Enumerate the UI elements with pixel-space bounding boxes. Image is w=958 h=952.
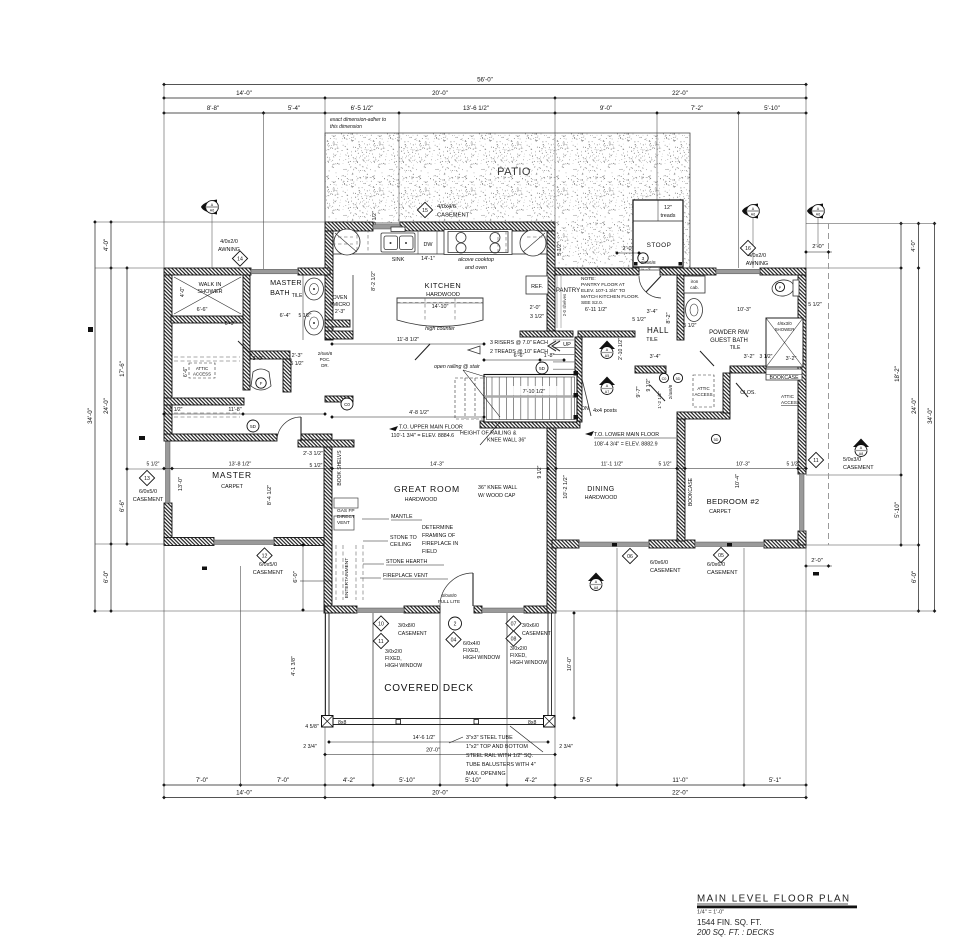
svg-text:6'-6": 6'-6" [197, 307, 208, 313]
svg-text:6'-0": 6'-0" [911, 571, 918, 583]
cooktop 4 burners [444, 230, 512, 255]
wall pantry south seg2 [578, 331, 635, 337]
svg-text:1/4" = 1'-0": 1/4" = 1'-0" [697, 910, 724, 916]
svg-text:MASTER: MASTER [212, 470, 252, 480]
svg-text:2'-3": 2'-3" [335, 309, 345, 315]
svg-text:22'-0": 22'-0" [672, 789, 688, 796]
ext line x164 [163, 85, 165, 269]
svg-text:DW: DW [424, 242, 434, 248]
svg-text:open railing @ stair: open railing @ stair [434, 364, 480, 370]
svg-text:CASEMENT: CASEMENT [133, 497, 164, 503]
wall master south west segment [164, 538, 214, 546]
closet door diagonal [736, 383, 748, 397]
svg-text:FIREPLACE IN: FIREPLACE IN [422, 541, 458, 547]
svg-text:20'-0": 20'-0" [426, 748, 440, 754]
wall great room south seg3 [474, 606, 482, 613]
svg-text:4'-0": 4'-0" [180, 287, 186, 297]
svg-text:GREAT ROOM: GREAT ROOM [394, 484, 460, 494]
svg-text:2/4x6/8: 2/4x6/8 [668, 384, 673, 399]
wall east upper [798, 275, 806, 474]
svg-text:4/0x4/6: 4/0x4/6 [437, 204, 456, 210]
wall kitchen east / pantry west [547, 231, 555, 336]
svg-text:and oven: and oven [465, 265, 487, 271]
dim line 11-8.5 kitchen [332, 343, 484, 345]
svg-text:2 3/4": 2 3/4" [559, 744, 573, 750]
svg-text:BATH: BATH [270, 288, 290, 297]
svg-text:#MICRO: #MICRO [330, 302, 350, 308]
svg-text:5'-10": 5'-10" [399, 777, 415, 784]
dim line 4-8 hall [332, 416, 484, 418]
deck divider line 3 [506, 613, 508, 719]
svg-text:17'-6": 17'-6" [119, 361, 126, 377]
svg-text:ATTIC: ATTIC [781, 394, 795, 399]
svg-text:3'-2": 3'-2" [786, 356, 797, 362]
svg-text:3/0x8/0: 3/0x8/0 [398, 623, 415, 629]
svg-text:CARPET: CARPET [221, 484, 244, 490]
svg-text:FIXED,: FIXED, [510, 653, 527, 659]
wall great room west [324, 441, 332, 613]
svg-text:4'-8 1/2": 4'-8 1/2" [409, 410, 429, 416]
svg-text:OVEN: OVEN [333, 295, 348, 301]
svg-text:4/6x3/0: 4/6x3/0 [777, 321, 792, 326]
window tag diamond 12 [257, 548, 272, 563]
svg-text:TUBE BALUSTERS WITH 4": TUBE BALUSTERS WITH 4" [466, 762, 536, 768]
svg-text:FIREPLACE VENT: FIREPLACE VENT [383, 573, 429, 579]
deck side rails [326, 613, 552, 717]
svg-text:14'-1": 14'-1" [421, 256, 435, 262]
svg-text:5'-5": 5'-5" [580, 777, 592, 784]
svg-text:8x8: 8x8 [528, 720, 536, 726]
svg-text:treads: treads [661, 213, 676, 219]
title underline thin [697, 903, 848, 905]
svg-text:6/0x5/0: 6/0x5/0 [259, 562, 277, 568]
window tag diamond 04 [446, 632, 461, 647]
svg-text:HIGH WINDOW: HIGH WINDOW [463, 655, 500, 661]
note arrow [468, 346, 480, 354]
svg-text:A6: A6 [816, 213, 820, 217]
toilet tag circle F [256, 378, 266, 388]
wall shower/bath divider [243, 275, 250, 390]
svg-text:SEE S2.0.: SEE S2.0. [581, 300, 603, 306]
svg-text:HIGH WINDOW: HIGH WINDOW [385, 663, 422, 669]
iron cabinet box [684, 276, 705, 293]
svg-text:34'-0": 34'-0" [87, 408, 94, 424]
svg-text:2'-3 1/2": 2'-3 1/2" [303, 451, 323, 457]
wall great room south seg4 [524, 606, 552, 613]
svg-text:SHOWER: SHOWER [197, 289, 222, 295]
deck divider line 2 [439, 613, 441, 719]
wall master north seg2 [301, 434, 332, 441]
deck bottom rail [325, 718, 552, 720]
kitchen sink double bowl [381, 227, 415, 252]
svg-text:10'-3": 10'-3" [737, 307, 751, 313]
section marker A6 top right inner [742, 204, 759, 219]
svg-text:CARPET: CARPET [709, 509, 732, 515]
vanity edge line [302, 275, 304, 340]
svg-text:9 1/2": 9 1/2" [646, 378, 652, 391]
svg-text:exact dimension-adher to: exact dimension-adher to [330, 117, 386, 123]
svg-text:7'-2": 7'-2" [691, 105, 703, 112]
svg-text:CASEMENT: CASEMENT [522, 631, 552, 637]
window tag diamond 11 deck [373, 633, 388, 648]
svg-text:A8: A8 [859, 452, 863, 456]
window 07/08 gap great room south [482, 608, 524, 613]
svg-text:ENTERTAINMENT: ENTERTAINMENT [344, 558, 350, 598]
ext line y610 right [552, 610, 935, 612]
svg-text:6'-4": 6'-4" [280, 313, 291, 319]
dim line deck height [573, 613, 575, 718]
svg-text:3'-4": 3'-4" [650, 354, 661, 360]
ext line x325 bottom [324, 610, 326, 798]
svg-text:5/0x3/0: 5/0x3/0 [843, 457, 861, 463]
tag circle C0 master hall [341, 398, 353, 410]
svg-text:11: 11 [813, 458, 818, 464]
powder toilet [771, 279, 795, 298]
svg-text:05: 05 [718, 553, 724, 559]
ext line y475 right [806, 474, 901, 476]
knee wall leader [480, 422, 500, 445]
svg-text:3 RISERS @ 7.0" EACH: 3 RISERS @ 7.0" EACH [490, 340, 548, 346]
wall kitchen north east segment [400, 222, 555, 231]
svg-text:10'-3": 10'-3" [736, 462, 750, 468]
tag circle C0 hall [659, 373, 668, 382]
svg-text:MAIN LEVEL FLOOR PLAN: MAIN LEVEL FLOOR PLAN [697, 894, 851, 905]
svg-text:6/0x5/0: 6/0x5/0 [139, 489, 157, 495]
svg-text:7'-0": 7'-0" [196, 777, 208, 784]
steel tube leader [449, 737, 463, 743]
stair arrow chevron upper [548, 341, 560, 351]
entertainment dashed lines [336, 545, 363, 600]
master door swing [277, 417, 301, 441]
patio stippled paving area [325, 133, 690, 270]
kitchen counter inner edge [333, 253, 547, 255]
svg-text:6/0x6/0: 6/0x6/0 [650, 560, 668, 566]
dim 24ft chain left [110, 222, 112, 611]
wall bookshelves master [298, 440, 354, 447]
svg-text:108'-4 3/4" = ELEV. 8882.9: 108'-4 3/4" = ELEV. 8882.9 [594, 442, 658, 448]
svg-text:24'-0": 24'-0" [911, 398, 918, 414]
svg-text:DN: DN [581, 406, 589, 412]
dim top row3 [164, 112, 806, 114]
svg-text:200 SQ. FT. : DECKS: 200 SQ. FT. : DECKS [696, 928, 775, 937]
svg-text:6'-0": 6'-0" [225, 321, 236, 327]
svg-text:F: F [260, 381, 263, 386]
svg-text:CASEMENT: CASEMENT [253, 570, 284, 576]
svg-text:20'-0": 20'-0" [432, 90, 448, 97]
svg-text:13: 13 [144, 476, 150, 482]
rail mid posts [396, 720, 401, 725]
svg-text:5D: 5D [539, 366, 546, 371]
ext line x164 bottom [163, 545, 165, 798]
svg-text:MANTLE: MANTLE [391, 514, 413, 520]
attic access dashed box master [189, 363, 215, 378]
powder door diagonal [700, 351, 714, 366]
svg-text:STONE HEARTH: STONE HEARTH [386, 559, 427, 565]
svg-text:AWNING: AWNING [746, 261, 768, 267]
svg-text:18'-2": 18'-2" [894, 366, 901, 382]
section cut mark left [88, 327, 93, 332]
fireplace boxes [334, 498, 358, 530]
dim top row2 [164, 97, 806, 99]
svg-text:8'-2 1/2": 8'-2 1/2" [371, 271, 377, 291]
section cut mark left 2 [139, 436, 145, 440]
svg-text:5'-10": 5'-10" [465, 777, 481, 784]
window tag diamond 13 [139, 470, 154, 485]
svg-text:REF.: REF. [531, 284, 543, 290]
svg-text:4'-0": 4'-0" [103, 239, 110, 251]
svg-text:6'-6": 6'-6" [514, 353, 525, 359]
svg-text:CEILING: CEILING [390, 542, 411, 548]
svg-text:HARDWOOD: HARDWOOD [405, 497, 438, 503]
svg-text:ELEV. 107-1 3/4" TO: ELEV. 107-1 3/4" TO [581, 288, 626, 294]
deck divider line 1 [372, 613, 374, 719]
svg-text:2/6x6/8: 2/6x6/8 [318, 351, 333, 356]
svg-text:12: 12 [262, 554, 268, 560]
svg-text:HARDWOOD: HARDWOOD [426, 292, 460, 298]
window 06 gap dining south [579, 542, 649, 547]
svg-text:3'-0": 3'-0" [253, 356, 264, 362]
svg-text:ACCESS: ACCESS [781, 400, 800, 405]
wall great room east / dining west [547, 421, 556, 613]
tag circle 5D hall [673, 373, 682, 382]
ext line x555 bottom [554, 610, 556, 798]
wall great room south seg2 [404, 606, 440, 613]
window 13 gap west wall [166, 435, 171, 503]
entry door swing [639, 276, 661, 298]
svg-text:1"x2" TOP AND BOTTOM: 1"x2" TOP AND BOTTOM [466, 744, 528, 750]
svg-text:56'-0": 56'-0" [477, 76, 493, 83]
window tag diamond 10 [373, 616, 388, 631]
svg-text:2-0 shelves: 2-0 shelves [562, 293, 567, 316]
dim line stairs top [484, 359, 564, 361]
corner lazy susan left [334, 229, 360, 255]
svg-text:2'-0": 2'-0" [623, 246, 634, 252]
svg-text:5 1/2": 5 1/2" [291, 361, 304, 367]
ext line x738 [738, 113, 740, 268]
elevation arrow upper [389, 426, 398, 431]
svg-text:4/0x2/0: 4/0x2/0 [748, 253, 766, 259]
svg-text:CASEMENT: CASEMENT [398, 631, 428, 637]
wall pocket closet south [325, 396, 353, 402]
TO upper underline [399, 430, 462, 432]
wall great room south seg1 [325, 606, 357, 613]
svg-text:11'-0": 11'-0" [672, 777, 687, 784]
svg-text:5 1/2": 5 1/2" [299, 313, 312, 319]
dim 6ft inner line [302, 545, 304, 611]
svg-text:WALK IN: WALK IN [199, 282, 222, 288]
svg-text:A6: A6 [751, 213, 755, 217]
svg-text:22'-0": 22'-0" [672, 90, 688, 97]
svg-text:HARDWOOD: HARDWOOD [585, 495, 618, 501]
wall oven niche south [325, 331, 353, 339]
fireplace vent leader [360, 577, 381, 579]
svg-text:20'-0": 20'-0" [432, 789, 448, 796]
dim line master hall [164, 413, 325, 415]
svg-text:3 1/2": 3 1/2" [530, 314, 544, 320]
wall kitchen north west segment [325, 222, 373, 231]
window tag diamond 14 [232, 251, 247, 266]
svg-text:06: 06 [627, 554, 633, 560]
svg-text:10: 10 [378, 622, 384, 628]
dim line deck 14-6 [329, 741, 548, 743]
ext line x555 [554, 98, 556, 268]
svg-text:3'-4": 3'-4" [647, 309, 658, 315]
oven niche east edge [352, 275, 354, 331]
svg-text:NOTE:: NOTE: [581, 276, 596, 282]
svg-text:DR.: DR. [321, 363, 329, 368]
svg-text:BEDROOM #2: BEDROOM #2 [707, 497, 760, 506]
elevation arrow lower [585, 431, 594, 436]
svg-text:2'-3": 2'-3" [292, 353, 303, 359]
svg-text:36" KNEE WALL: 36" KNEE WALL [478, 485, 517, 491]
svg-text:C0: C0 [662, 377, 667, 381]
tag circle 5D stair [536, 362, 548, 374]
svg-text:C0: C0 [344, 402, 350, 407]
wall stair south knee wall [480, 421, 580, 428]
svg-text:2'-0": 2'-0" [530, 305, 541, 311]
svg-text:1'-8": 1'-8" [544, 353, 555, 359]
ext line x263 [263, 113, 265, 269]
svg-text:TILE: TILE [646, 337, 658, 343]
wall west lower [164, 503, 172, 545]
svg-text:16: 16 [745, 246, 751, 252]
svg-text:11'-1 1/2": 11'-1 1/2" [601, 462, 623, 468]
svg-text:cab.: cab. [690, 285, 699, 290]
wall bedroom2 south seg3 [764, 540, 806, 548]
svg-text:7'-10 1/2": 7'-10 1/2" [523, 389, 546, 395]
svg-text:13'-0": 13'-0" [178, 477, 184, 491]
ext line x440 bottom [439, 613, 441, 785]
wall master suite north east segment [298, 268, 330, 275]
stone hearth underline [386, 564, 444, 566]
ext line y469 left [127, 468, 164, 470]
wall dining south seg1 [552, 540, 579, 548]
svg-text:3/0x2/0: 3/0x2/0 [510, 646, 527, 652]
window 06 center mark [612, 543, 617, 547]
ext line y544 left [95, 543, 164, 545]
master sink 2 [305, 311, 324, 335]
dim line deck 20-0 [325, 754, 555, 756]
window 05 gap bedroom2 south [695, 542, 764, 547]
section marker A6 top right outer [807, 204, 824, 219]
svg-text:13'-8 1/2": 13'-8 1/2" [229, 462, 252, 468]
railing leader1 [463, 370, 486, 377]
walk-in shower X [174, 277, 241, 314]
master toilet [251, 369, 271, 390]
svg-text:6'-5 1/2": 6'-5 1/2" [351, 105, 374, 112]
dim line great room [332, 468, 548, 470]
ext line x507 bottom [506, 613, 508, 785]
svg-text:04: 04 [451, 638, 457, 644]
svg-text:5'-4": 5'-4" [288, 105, 300, 112]
dim line master width [164, 468, 332, 470]
dim 24ft chain right [918, 224, 920, 612]
ext line y268 right [806, 267, 901, 269]
svg-text:STEEL RAIL WITH 1/2" SQ.: STEEL RAIL WITH 1/2" SQ. [466, 753, 533, 759]
svg-text:2'-10 1/2": 2'-10 1/2" [618, 338, 624, 360]
stoop outline [633, 200, 683, 267]
svg-text:4/0x2/0: 4/0x2/0 [220, 239, 238, 245]
svg-text:FIXED,: FIXED, [385, 656, 402, 662]
wall shower south [171, 316, 243, 323]
svg-text:14'-6 1/2": 14'-6 1/2" [413, 735, 436, 741]
svg-text:6/0x4/0: 6/0x4/0 [463, 641, 480, 647]
svg-text:4'-1 3/8": 4'-1 3/8" [291, 656, 297, 676]
ext line x806 [805, 85, 807, 269]
wall south seg2 dining/bedroom2 [649, 540, 695, 548]
ext line x657 [656, 113, 658, 200]
svg-text:6/0x8/0: 6/0x8/0 [441, 593, 457, 598]
window 11 gap east wall [800, 474, 805, 531]
svg-text:POC.: POC. [320, 357, 331, 362]
svg-text:2 3/4": 2 3/4" [303, 744, 317, 750]
svg-text:TILE: TILE [292, 293, 303, 299]
wall oven niche north [325, 320, 350, 327]
svg-text:PANTRY FLOOR AT: PANTRY FLOOR AT [581, 282, 625, 288]
wall guest bath south seg2 [730, 366, 766, 373]
svg-text:BOOKCASE: BOOKCASE [769, 375, 799, 381]
svg-text:ACCESS: ACCESS [193, 372, 211, 377]
svg-text:3/0x6/8: 3/0x6/8 [640, 260, 656, 265]
window tag diamond 15 [417, 202, 432, 217]
fireplace vent underline [383, 578, 448, 580]
svg-text:A5: A5 [605, 354, 609, 358]
svg-text:07: 07 [511, 622, 517, 628]
door tag circle 2 [449, 617, 462, 630]
ext line y610 left [95, 610, 325, 612]
svg-text:ATTIC: ATTIC [697, 386, 709, 391]
svg-text:11'-8": 11'-8" [228, 407, 241, 413]
window 15 gap kitchen north [373, 225, 400, 230]
svg-text:6'-6": 6'-6" [183, 367, 189, 377]
wall bath wc east [283, 359, 291, 392]
hall door diagonal [415, 344, 430, 360]
svg-text:9 1/2": 9 1/2" [537, 465, 543, 478]
refrigerator box [526, 276, 548, 294]
svg-text:5 1/2": 5 1/2" [659, 462, 672, 468]
svg-text:8'-2": 8'-2" [666, 312, 672, 323]
svg-text:4'-0": 4'-0" [911, 240, 917, 252]
svg-text:4x4 posts: 4x4 posts [593, 408, 617, 414]
svg-text:5 1/2": 5 1/2" [170, 407, 183, 413]
svg-text:alcove cooktop: alcove cooktop [458, 257, 494, 263]
kitchen island high counter [397, 298, 483, 327]
attic access underline [781, 405, 799, 407]
closet rod dashed lines [174, 357, 240, 417]
svg-text:6'-0": 6'-0" [293, 571, 299, 583]
svg-text:5'-10": 5'-10" [894, 502, 901, 518]
wall north right-wing seg2 [660, 268, 716, 275]
ext line x373 bottom [372, 613, 374, 785]
svg-text:10'-4": 10'-4" [735, 474, 741, 488]
svg-text:SHOWER: SHOWER [775, 327, 795, 332]
mantle leader [362, 518, 389, 520]
svg-text:3"x3" STEEL TUBE: 3"x3" STEEL TUBE [466, 735, 513, 741]
svg-text:5 1/2": 5 1/2" [684, 323, 697, 329]
svg-text:4 5/8": 4 5/8" [305, 724, 319, 730]
ext line x617 bottom [616, 548, 618, 785]
svg-text:FIELD: FIELD [422, 549, 437, 555]
section mark right bottom [813, 572, 819, 576]
wall stair north seg1 [520, 331, 573, 337]
svg-text:UP: UP [563, 342, 571, 348]
wc door diagonal [238, 341, 252, 355]
svg-text:5D: 5D [714, 438, 719, 442]
svg-text:110'-1 3/4" = ELEV. 8884.6: 110'-1 3/4" = ELEV. 8884.6 [391, 433, 454, 439]
svg-text:FULL LITE: FULL LITE [438, 599, 460, 604]
svg-text:8x8: 8x8 [338, 720, 346, 726]
svg-text:34'-0": 34'-0" [927, 408, 934, 424]
